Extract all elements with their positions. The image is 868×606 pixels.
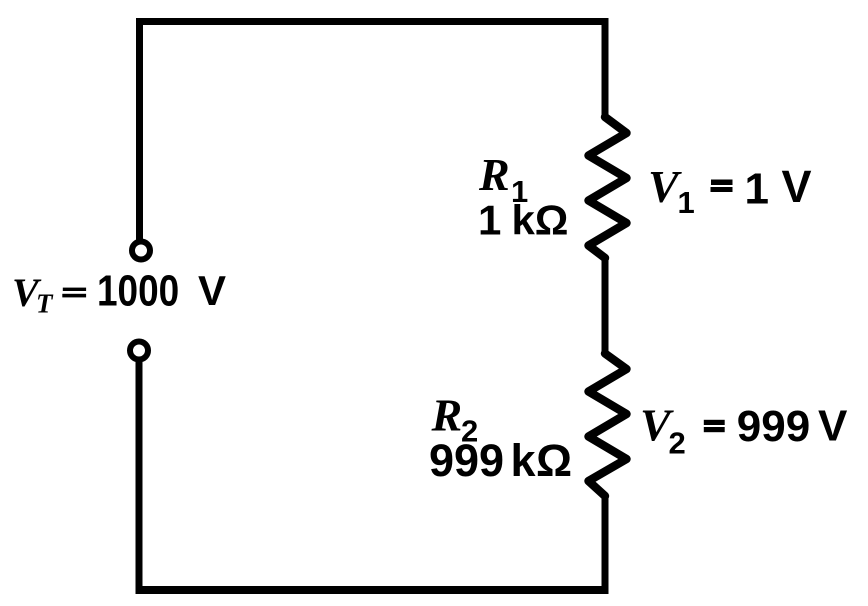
label: source equals sign: [62, 288, 86, 298]
label: voltage V2 equals sign: [704, 420, 725, 432]
svg-text:V: V: [198, 267, 226, 314]
svg-text:R: R: [478, 149, 510, 200]
svg-text:R: R: [431, 390, 463, 441]
label: voltage V1 equals sign: [711, 180, 733, 193]
resistor R2 zigzag body: [589, 354, 627, 497]
wire: right branch, top corner down to R1: [602, 18, 609, 119]
wire: left branch, bottom-left corner up to lower terminal: [136, 361, 143, 594]
wire: right branch, R2 down to bottom-right corner: [602, 494, 609, 590]
resistor R1 zigzag body: [589, 117, 627, 258]
wire: left branch, upper terminal up to top-left corner: [136, 22, 143, 241]
svg-text:999: 999: [429, 435, 504, 486]
svg-text:Ω: Ω: [536, 435, 572, 486]
svg-text:T: T: [36, 289, 54, 319]
svg-text:V: V: [818, 402, 848, 451]
svg-text:V: V: [782, 161, 812, 212]
svg-text:Ω: Ω: [535, 197, 569, 244]
svg-text:1000: 1000: [97, 265, 179, 315]
svg-text:k: k: [512, 197, 536, 244]
terminal: upper open-circle terminal of source: [132, 242, 150, 260]
wire: right branch between R1 and R2: [602, 256, 609, 355]
svg-text:k: k: [511, 435, 537, 486]
svg-text:1: 1: [478, 197, 501, 244]
svg-text:999: 999: [737, 402, 810, 451]
wire: bottom horizontal run: [139, 586, 609, 594]
svg-text:1: 1: [745, 165, 769, 214]
svg-text:2: 2: [669, 426, 686, 461]
terminal: lower open-circle terminal of source: [130, 342, 148, 360]
svg-text:1: 1: [678, 185, 695, 220]
wire: top horizontal run: [136, 18, 609, 25]
